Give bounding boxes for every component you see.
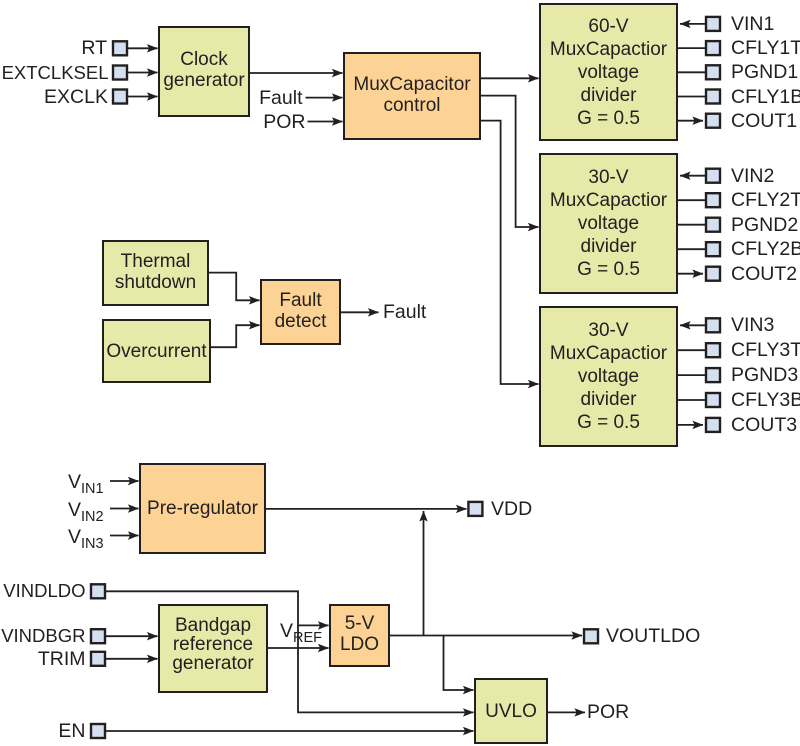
pin CFLY2T — [706, 193, 720, 207]
label COUT3 — [731, 414, 797, 436]
wire COUT1 — [678, 120, 703, 122]
pin EN — [91, 724, 105, 738]
label VIN1 subscript input — [68, 471, 104, 493]
label CFLY1B — [731, 86, 800, 108]
wire COUT2 — [678, 273, 703, 275]
pin VIN3 — [706, 318, 720, 332]
wire VINDBGR to Bandgap — [106, 635, 158, 637]
wire POR input to MuxCapacitor control — [308, 121, 343, 123]
pin COUT2 — [706, 267, 720, 281]
pin CFLY1B — [706, 90, 720, 104]
wire Fault input to MuxCapacitor control — [306, 97, 343, 99]
wire Thermal shutdown to Fault detect — [209, 273, 260, 301]
block 5-V LDO — [329, 604, 390, 667]
block Clock generator — [158, 26, 250, 117]
block 60-V MuxCapactior voltage divider — [539, 3, 678, 141]
block MuxCapacitor control — [343, 52, 481, 140]
label EXTCLKSEL — [2, 62, 109, 84]
wire CFLY2B — [678, 248, 705, 250]
wire VIN2 to Pre-regulator — [110, 508, 139, 510]
label VIN3 subscript input — [68, 526, 104, 548]
wire PGND3 — [678, 374, 705, 376]
wire CFLY1T — [678, 47, 705, 49]
wire Pre-regulator to VDD pin — [266, 508, 467, 510]
label COUT1 — [731, 110, 797, 132]
wire VIN2 pin to divider 2 — [680, 175, 705, 177]
wire VINDLDO branch to 5-V LDO — [298, 624, 329, 626]
pin EXTCLKSEL — [113, 66, 127, 80]
wire control to 60-V divider — [481, 77, 539, 79]
block UVLO — [474, 678, 548, 744]
label EXCLK — [44, 86, 108, 108]
pin CFLY3T — [706, 343, 720, 357]
wire EN to UVLO — [106, 730, 474, 732]
wire control to 30-V divider 2 — [481, 96, 539, 227]
wire PGND1 — [678, 71, 705, 73]
wire VIN1 to Pre-regulator — [110, 480, 139, 482]
label PGND2 — [731, 214, 798, 236]
label VOUTLDO — [606, 625, 700, 647]
wire UVLO to POR output — [548, 711, 585, 713]
wire VIN3 to Pre-regulator — [110, 535, 139, 537]
pin VINDBGR — [91, 629, 105, 643]
block 30-V MuxCapactior voltage divider 3 — [539, 306, 678, 447]
wire EXCLK to Clock generator — [128, 96, 158, 98]
wire CFLY3T — [678, 349, 705, 351]
label PGND1 — [731, 61, 798, 83]
wire TRIM to Bandgap — [106, 658, 158, 660]
wire Fault detect output — [341, 311, 379, 313]
label EN — [58, 720, 85, 742]
label CFLY2B — [731, 238, 800, 260]
pin CFLY3B — [706, 393, 720, 407]
pin TRIM — [91, 652, 105, 666]
label VREF — [280, 620, 322, 642]
pin COUT3 — [706, 418, 720, 432]
label CFLY1T — [731, 37, 800, 59]
wire Overcurrent to Fault detect — [211, 325, 260, 347]
label VINDBGR — [1, 625, 85, 647]
label VIN2 — [731, 165, 774, 187]
label Fault output — [383, 301, 426, 323]
label VIN2 subscript input — [68, 499, 104, 521]
label CFLY3T — [731, 339, 800, 361]
label CFLY3B — [731, 389, 800, 411]
wire LDO output down-branch to UVLO — [444, 636, 474, 691]
wire LDO output up-branch to VDD rail — [423, 511, 425, 636]
label POR input — [263, 111, 305, 133]
pin COUT1 — [706, 114, 720, 128]
wire CFLY1B — [678, 96, 705, 98]
pin PGND1 — [706, 65, 720, 79]
pin PGND3 — [706, 368, 720, 382]
wire CFLY2T — [678, 199, 705, 201]
label POR output — [587, 701, 629, 723]
wire PGND2 — [678, 224, 705, 226]
block Fault detect — [260, 279, 341, 345]
pin VIN2 — [706, 169, 720, 183]
pin CFLY1T — [706, 41, 720, 55]
wire EXTCLKSEL to Clock generator — [128, 72, 158, 74]
pin CFLY2B — [706, 242, 720, 256]
wire COUT3 — [678, 424, 703, 426]
label PGND3 — [731, 364, 798, 386]
label RT — [81, 37, 107, 59]
block 30-V MuxCapactior voltage divider 2 — [539, 153, 678, 294]
pin PGND2 — [706, 218, 720, 232]
pin VDD — [468, 502, 482, 516]
label VIN3 — [731, 314, 774, 336]
block Overcurrent — [102, 319, 211, 383]
label TRIM — [38, 648, 86, 670]
wire CFLY3B — [678, 399, 705, 401]
wire VINDLDO to UVLO — [106, 591, 474, 712]
label CFLY2T — [731, 189, 800, 211]
label COUT2 — [731, 263, 797, 285]
pin VIN1 — [706, 17, 720, 31]
wire VIN3 pin to divider 3 — [680, 324, 705, 326]
wire VREF Bandgap to 5-V LDO — [268, 647, 329, 649]
pin RT — [113, 41, 127, 55]
label VDD — [491, 498, 532, 520]
pin VINDLDO — [91, 584, 105, 598]
wire VIN1 pin to divider 1 — [680, 23, 705, 25]
wire Clock generator to MuxCapacitor control — [250, 72, 343, 74]
pin EXCLK — [113, 90, 127, 104]
wire RT to Clock generator — [128, 47, 158, 49]
block Bandgap reference generator — [158, 604, 268, 693]
wire control to 30-V divider 3 — [481, 121, 539, 384]
block Thermal shutdown — [102, 240, 209, 306]
label Fault input — [259, 87, 302, 109]
block Pre-regulator — [139, 463, 266, 554]
pin VOUTLDO — [584, 629, 598, 643]
label VINDLDO — [3, 580, 85, 602]
label VIN1 — [731, 13, 774, 35]
wire 5-V LDO to VOUTLDO pin — [390, 635, 582, 637]
